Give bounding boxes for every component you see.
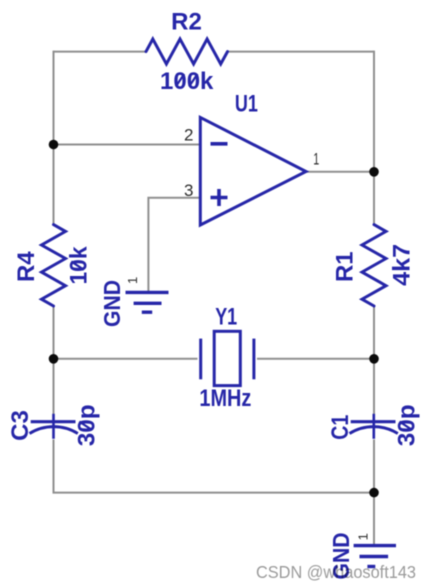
wire op-amp pin2 bbox=[54, 144, 201, 146]
wire op-amp output bbox=[306, 171, 374, 173]
svg-text:4k7: 4k7 bbox=[389, 244, 416, 286]
svg-text:R4: R4 bbox=[13, 251, 40, 282]
value 30p of C1 (rotated, slashed zero) bbox=[394, 404, 421, 446]
junction dot node bottom/right bbox=[369, 488, 379, 498]
junction dot node crystal/right bbox=[369, 354, 379, 364]
wire right vertical upper bbox=[373, 51, 375, 225]
svg-text:U1: U1 bbox=[235, 91, 258, 118]
wire left vertical upper bbox=[53, 51, 55, 225]
svg-text:1: 1 bbox=[356, 533, 371, 540]
svg-text:R1: R1 bbox=[332, 251, 359, 282]
junction dot node pin2/left bbox=[49, 140, 59, 150]
svg-text:C1: C1 bbox=[327, 415, 354, 440]
wire left vertical middle bbox=[53, 306, 55, 421]
resistor R1 bbox=[362, 225, 386, 306]
wire crystal right bbox=[257, 358, 374, 360]
svg-text:GND: GND bbox=[99, 280, 125, 327]
wire left vertical lower bbox=[53, 440, 55, 493]
svg-text:3: 3 bbox=[184, 181, 193, 200]
value 30p of C3 (rotated, slashed zero) bbox=[73, 404, 100, 446]
wire top-left segment bbox=[54, 51, 147, 53]
svg-text:1: 1 bbox=[125, 277, 140, 284]
wire right vertical middle bbox=[373, 306, 375, 421]
capacitor C3 bbox=[30, 414, 78, 439]
value 10k (rotated, slashed zero) bbox=[65, 246, 92, 285]
wire bottom horizontal bbox=[53, 492, 375, 494]
ground symbol lower (right rail) bbox=[354, 546, 396, 567]
wire right vertical lower bbox=[373, 440, 375, 546]
svg-text:R2: R2 bbox=[171, 8, 202, 35]
svg-text:1MHz: 1MHz bbox=[199, 385, 251, 412]
svg-text:2: 2 bbox=[184, 126, 193, 145]
op-amp minus input mark bbox=[211, 142, 228, 146]
crystal Y1 bbox=[201, 331, 254, 385]
svg-text:CSDN @whaosoft143: CSDN @whaosoft143 bbox=[256, 562, 416, 582]
junction dot node output/right bbox=[369, 167, 379, 177]
resistor R2 bbox=[146, 39, 228, 64]
capacitor C1 bbox=[350, 414, 398, 439]
op-amp U1 triangle bbox=[200, 117, 306, 225]
wire op-amp pin3 bbox=[148, 197, 200, 292]
op-amp plus input mark bbox=[211, 189, 228, 206]
svg-text:100k: 100k bbox=[160, 68, 214, 95]
ground symbol upper (op-amp pin3) bbox=[126, 292, 169, 312]
svg-text:C3: C3 bbox=[7, 410, 34, 441]
resistor R4 bbox=[42, 225, 66, 306]
wire top-right segment bbox=[228, 51, 375, 53]
value 100k bbox=[160, 68, 214, 95]
wire crystal left bbox=[54, 358, 198, 360]
svg-text:Y1: Y1 bbox=[215, 304, 237, 331]
junction dot node crystal/left bbox=[49, 354, 59, 364]
svg-text:1: 1 bbox=[313, 150, 319, 169]
